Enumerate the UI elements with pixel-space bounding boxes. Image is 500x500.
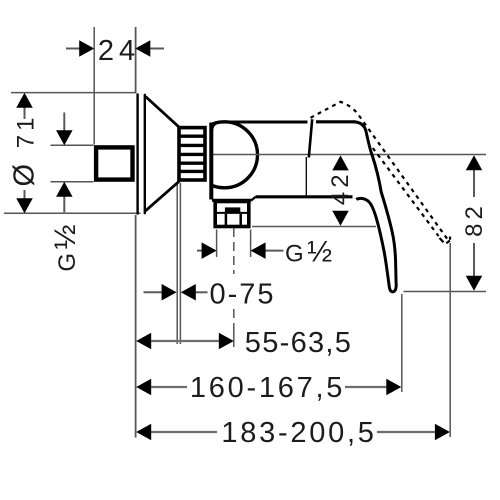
dashed tip ext down [449, 243, 451, 437]
valve body block [211, 119, 355, 200]
escutcheon (wall rosette) [138, 94, 180, 213]
dim 0-75 [144, 291, 208, 293]
82 bottom ext [404, 291, 487, 293]
step [252, 197, 256, 201]
svg-text:Ø 71: Ø 71 [9, 114, 41, 187]
42 bottom ext [252, 226, 376, 228]
svg-text:0-75: 0-75 [209, 279, 275, 311]
dim 82 right [473, 170, 475, 277]
outlet nozzle with G1/2 union nut [214, 202, 251, 227]
supply centerline through body [211, 154, 486, 156]
dim 24 top [66, 48, 164, 50]
svg-text:42: 42 [327, 170, 354, 205]
wall plane ext line upper [135, 27, 137, 93]
dim 55-63,5 [150, 340, 219, 342]
thin extension/center lines [4, 27, 486, 438]
svg-text:82: 82 [461, 202, 488, 237]
dim dia 71 left [24, 107, 26, 199]
wall ext line (24 left) [93, 27, 95, 145]
outlet centerline solid part [233, 327, 235, 347]
left edge [209, 123, 213, 200]
dim G1/2 right [197, 250, 284, 252]
square inlet connector [96, 147, 132, 179]
G half right ext stubs [216, 230, 218, 258]
dim 183-200,5 [150, 431, 217, 433]
eraser over left bulge of circle [186, 117, 210, 191]
svg-text:24: 24 [98, 35, 140, 67]
svg-text:160-167,5: 160-167,5 [190, 372, 345, 404]
outlet dashed centerline [233, 228, 235, 274]
svg-text:55-63,5: 55-63,5 [245, 327, 352, 359]
dia71 bottom ext [4, 212, 141, 214]
dim 42 [332, 155, 349, 170]
body circle (cartridge dome) [192, 122, 258, 188]
top edge with rounded corner [212, 122, 308, 132]
bottom edge right of step [256, 195, 353, 198]
dashed handle open-position outline [311, 102, 451, 243]
svg-text:G½: G½ [285, 236, 332, 269]
root separator [309, 119, 312, 157]
svg-text:G½: G½ [49, 224, 82, 271]
dim G1/2 left [63, 113, 65, 213]
square top ext stub [51, 144, 94, 146]
svg-text:183-200,5: 183-200,5 [221, 417, 376, 449]
dia71 top ext [11, 92, 137, 94]
root lower thin line [305, 157, 307, 196]
lever handle (closed position) [354, 122, 396, 292]
bottom edge left of step [212, 199, 252, 202]
square bottom ext stub [51, 181, 94, 183]
dim 160-167,5 [150, 386, 187, 388]
handle root top edge + corner into lever [316, 120, 355, 123]
wall plane ext line lower (to bottom dims) [135, 215, 137, 438]
handle tip ext down [401, 294, 403, 392]
escutcheon edge ext lines (0-75) [176, 183, 178, 344]
ribbed collar (volume ring) [179, 128, 205, 180]
